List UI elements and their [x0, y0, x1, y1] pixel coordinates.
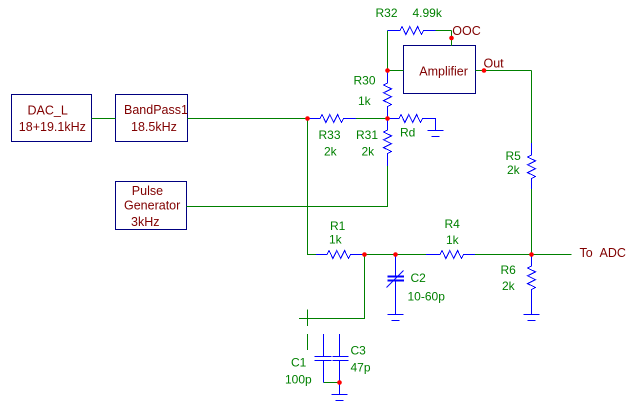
svg-text:1k: 1k [446, 233, 460, 247]
wire R4 to To ADC [475, 254, 572, 256]
junction node C2 top [393, 252, 398, 257]
svg-text:2k: 2k [324, 145, 338, 159]
junction node amplifier input [385, 68, 390, 73]
svg-text:R31: R31 [356, 128, 378, 142]
svg-text:Pulse: Pulse [132, 184, 163, 198]
svg-text:2k: 2k [362, 145, 376, 159]
svg-text:R32: R32 [376, 6, 398, 20]
svg-text:Rd: Rd [400, 126, 415, 140]
svg-text:1k: 1k [358, 94, 372, 108]
svg-text:Out: Out [484, 57, 505, 71]
svg-text:Generator: Generator [124, 199, 180, 213]
svg-text:C3: C3 [351, 344, 367, 358]
wire Out down to R5 [531, 71, 533, 144]
ground for Rd [428, 131, 444, 137]
resistor R31 [356, 119, 392, 167]
wire BandPass1 to node [188, 118, 310, 120]
svg-text:18.5kHz: 18.5kHz [131, 120, 177, 134]
svg-text:BandPass1: BandPass1 [124, 103, 188, 117]
node Out [482, 57, 504, 73]
wire R33 to junction [356, 118, 388, 120]
svg-text:18+19.1kHz: 18+19.1kHz [19, 120, 86, 134]
svg-text:R30: R30 [354, 74, 376, 88]
svg-text:2k: 2k [502, 279, 516, 293]
wire R32 right to OOC [436, 30, 452, 32]
resistor R4 [426, 217, 475, 259]
svg-text:R1: R1 [330, 219, 346, 233]
svg-text:3kHz: 3kHz [131, 215, 159, 229]
block BandPass1 [116, 95, 188, 142]
resistor R30 [354, 71, 392, 119]
svg-text:Amplifier: Amplifier [419, 65, 468, 79]
junction node R30 R31 R33 Rd [385, 116, 390, 121]
svg-text:C2: C2 [411, 271, 427, 285]
svg-text:1k: 1k [329, 233, 343, 247]
capacitor C2 variable [387, 255, 446, 315]
resistor R6 [501, 255, 536, 315]
capacitor C1 [285, 334, 332, 387]
capacitor C3 [333, 334, 371, 395]
svg-text:R6: R6 [501, 263, 517, 277]
svg-text:4.99k: 4.99k [413, 6, 443, 20]
junction node at BandPass output [305, 116, 310, 121]
wire R1 junction to R4 [362, 254, 426, 256]
wire junction to amplifier input [388, 70, 404, 72]
svg-text:R33: R33 [319, 128, 341, 142]
resistor R1 [316, 219, 362, 259]
op-amp U1 Amplifier [404, 46, 476, 94]
wire DAC_L to BandPass1 [92, 118, 116, 120]
ground for C2 [388, 315, 404, 321]
resistor Rd [388, 115, 436, 140]
junction node R1 right [362, 252, 367, 257]
wire junction down to R1 corner [308, 119, 317, 255]
resistor R5 [506, 143, 536, 189]
ground for C3 [332, 395, 348, 401]
svg-text:100p: 100p [285, 373, 312, 387]
node stub cross [307, 310, 309, 327]
resistor R32 [376, 6, 443, 35]
block Pulse Generator [116, 182, 187, 230]
junction node C1 C3 ground [337, 380, 342, 385]
svg-text:R5: R5 [506, 149, 522, 163]
svg-text:47p: 47p [351, 361, 371, 375]
wire R5 to bottom junction [531, 189, 533, 255]
svg-text:DAC_L: DAC_L [28, 104, 68, 118]
node OOC [449, 24, 481, 40]
wire C1 bottom to junction [324, 382, 340, 384]
resistor R33 [308, 115, 356, 159]
wire junction down to cap branch [299, 255, 365, 319]
svg-text:C1: C1 [291, 356, 307, 370]
svg-text:To: To [580, 246, 593, 260]
svg-text:R4: R4 [445, 217, 461, 231]
wire Pulse Generator to R31 [187, 166, 388, 207]
svg-text:OOC: OOC [452, 24, 480, 38]
wire amplifier output to Out corner [476, 70, 532, 72]
node stub dash [307, 334, 309, 350]
block DAC_L [12, 95, 92, 142]
svg-text:ADC: ADC [600, 246, 626, 260]
wire R32 left vertical [387, 31, 389, 71]
ground for R6 [524, 315, 540, 321]
svg-text:10-60p: 10-60p [408, 290, 446, 304]
svg-text:2k: 2k [507, 163, 521, 177]
wire OOC to amplifier top [451, 31, 453, 47]
junction node R5 R6 To ADC [529, 252, 534, 257]
